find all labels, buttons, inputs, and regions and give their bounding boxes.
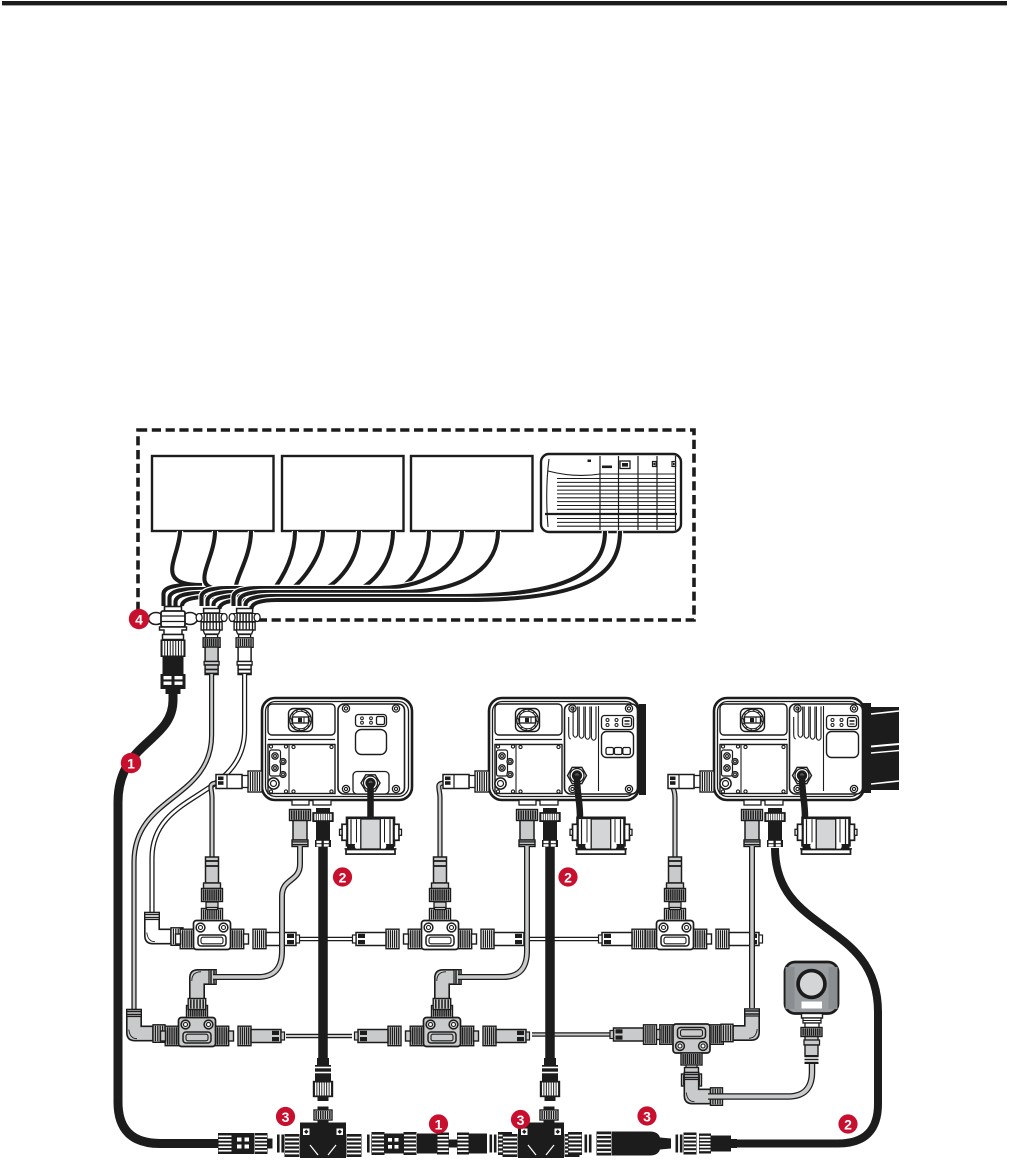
ECU 3 left port xyxy=(700,771,714,792)
helm connector 3 xyxy=(237,609,253,614)
gray cable ECU3 down xyxy=(749,846,755,1008)
helm connector 2 xyxy=(204,609,220,614)
column1 black cable xyxy=(318,847,328,1059)
badge 1 left cable xyxy=(121,753,141,773)
row1 tee coupler xyxy=(202,909,223,921)
row2 T1 top elbow xyxy=(190,970,216,999)
sensor cable xyxy=(708,1063,812,1097)
row1 tee coupler xyxy=(665,909,686,921)
row2 T3 bottom connector xyxy=(685,1068,699,1074)
row2 tee coupler xyxy=(187,1006,208,1018)
row2 T3 bottom elbow xyxy=(684,1073,710,1104)
badge 4 xyxy=(129,609,149,629)
ECU 1 xyxy=(262,698,412,800)
ECU 2 pump cable xyxy=(577,776,580,818)
bus tee 1 xyxy=(285,1134,300,1157)
svg-text:4: 4 xyxy=(135,612,143,628)
bus tee 2 stack xyxy=(544,1058,556,1065)
bus power node (item 3) xyxy=(597,1132,612,1156)
row1 vertical connector xyxy=(669,857,682,883)
ECU 3 pump xyxy=(803,818,850,846)
row2 left elbow xyxy=(127,1010,153,1041)
junction box xyxy=(541,454,681,532)
svg-text:1: 1 xyxy=(127,756,135,772)
compass sensor xyxy=(785,962,838,1014)
svg-text:3: 3 xyxy=(517,1112,525,1128)
badge 1 bus xyxy=(429,1114,448,1133)
ECU 1 left port xyxy=(248,771,262,792)
ECU 1 pump xyxy=(347,818,394,846)
svg-text:2: 2 xyxy=(564,870,572,886)
badge 3 bus2 xyxy=(511,1110,530,1129)
cable 2 right sweep xyxy=(737,848,878,1144)
cable 1 thick black to bus xyxy=(118,692,218,1144)
row1 inline right of T1 xyxy=(253,929,266,949)
ECU 3 side black band xyxy=(862,703,871,793)
row1 inline left of T2 xyxy=(386,929,399,949)
bus connector pair (item1) xyxy=(417,1134,437,1154)
bus inline connector A xyxy=(218,1133,232,1154)
svg-text:2: 2 xyxy=(339,870,347,886)
top rule bar xyxy=(2,1,1007,5)
row2 T3 left inline xyxy=(644,1025,657,1045)
ECU 2 xyxy=(489,698,639,800)
svg-text:2: 2 xyxy=(844,1117,852,1133)
display 2 xyxy=(282,456,404,531)
ECU 2 pump xyxy=(578,818,625,846)
row1 tee x=675 xyxy=(643,929,657,949)
backbone line row2 b xyxy=(532,1032,612,1037)
jumper cable xyxy=(670,783,675,858)
row1 inline right of T2 xyxy=(481,929,494,949)
display 1 xyxy=(152,456,274,531)
jumper cable xyxy=(439,783,445,858)
helm harness connector (item 4) xyxy=(165,607,182,614)
svg-text:3: 3 xyxy=(643,1109,651,1125)
badge 2 right xyxy=(838,1114,857,1133)
bus ribs before tee2 xyxy=(490,1135,493,1153)
row2 tee x=197 xyxy=(165,1026,179,1046)
row1 vertical connector xyxy=(206,857,219,883)
column2 black cable xyxy=(545,847,555,1059)
ECU 3 bottom connectors xyxy=(742,810,763,821)
row2 T3 right elbow xyxy=(733,1009,759,1040)
badge 2 col2 xyxy=(558,867,577,886)
display 3 xyxy=(411,456,533,531)
ECU 1 bottom connectors xyxy=(290,810,311,821)
bus tee 1 stack xyxy=(317,1058,329,1065)
ECU 3 xyxy=(714,698,864,800)
row1 left elbow xyxy=(145,913,171,944)
ECU 3 pump cable xyxy=(802,776,805,818)
row1 terminator right of T3 xyxy=(716,929,729,949)
jumper cable xyxy=(211,783,218,858)
badge 3 bus1 xyxy=(276,1107,295,1126)
row2 T2 top elbow xyxy=(435,970,461,999)
ECU 1 pump cable xyxy=(367,783,374,825)
cable from connector 2 to row2 left elbow xyxy=(134,674,212,1012)
gray cable ECU2 down xyxy=(458,846,527,977)
svg-text:1: 1 xyxy=(435,1117,443,1133)
row2 T3 bottom coupler xyxy=(681,1053,702,1065)
row1 tee x=212 xyxy=(180,929,194,949)
bus inline connector B xyxy=(372,1132,385,1155)
cable from connector 3 to row1 left elbow xyxy=(152,674,245,916)
dashed helm enclosure xyxy=(138,430,694,620)
ECU 2 left port xyxy=(475,771,489,792)
row2 inline right of T1 xyxy=(238,1026,251,1046)
row2 tee T3 (flipped) xyxy=(660,1025,674,1045)
gray cable ECU1 down xyxy=(213,846,300,977)
display cable fan xyxy=(164,531,203,606)
badge-carrier xyxy=(367,1135,370,1153)
row1 tee x=440 xyxy=(408,929,422,949)
ECU 2 side black band xyxy=(639,704,646,795)
row2 tee coupler xyxy=(432,1006,453,1018)
row2 inline left of T2 xyxy=(388,1026,401,1046)
row1 inline left of T3 xyxy=(632,929,645,949)
bus tee 2 xyxy=(503,1134,518,1157)
ECU 2 bottom connectors xyxy=(517,810,538,821)
badge 2 col1 xyxy=(333,867,352,886)
backbone line row2 a xyxy=(286,1034,352,1039)
backbone line row1 b xyxy=(524,937,604,942)
bus ribs after tee2 xyxy=(568,1132,582,1155)
badge 3 bus3 xyxy=(637,1106,656,1125)
row1 tee coupler xyxy=(430,909,451,921)
row2 inline right of T2 xyxy=(483,1026,496,1046)
row2 tee x=442 xyxy=(410,1026,424,1046)
svg-text:3: 3 xyxy=(282,1109,290,1125)
row1 vertical connector xyxy=(434,857,447,883)
backbone line row1 a xyxy=(296,937,356,942)
